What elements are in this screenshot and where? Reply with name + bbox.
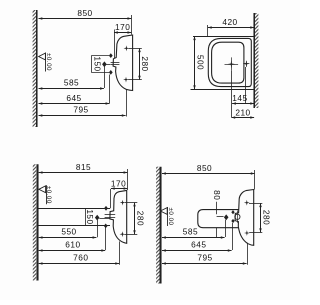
dimension 420: left extension line <box>207 25 209 36</box>
dimension 610: line <box>39 250 106 252</box>
wall hatching (top-right) <box>255 13 258 108</box>
dimension 280: bottom extension line (bottom-right) <box>249 232 262 234</box>
svg-text:145: 145 <box>232 93 247 103</box>
mounting hole upper (top-left) <box>124 45 130 51</box>
dimension 645: line <box>39 103 110 105</box>
floor level marker (top-left): triangle <box>39 53 46 60</box>
svg-text:815: 815 <box>76 162 91 172</box>
dimension 850 (bottom-right): line <box>162 173 255 175</box>
dimension 815: line <box>39 172 128 174</box>
svg-text:150: 150 <box>85 209 95 224</box>
dimension 280: top extension line <box>129 48 142 50</box>
dimension 150: top extension line <box>91 55 109 57</box>
dimension 150: bottom extension line <box>91 72 109 74</box>
shelf top line / dimension 150 upper extension <box>38 208 110 210</box>
dimension 80: leader line lower <box>216 228 218 238</box>
svg-text:80: 80 <box>212 190 222 200</box>
mounting hole upper (bottom-left) <box>120 200 126 206</box>
svg-text:500: 500 <box>195 55 205 70</box>
dimension 585: extension line <box>104 67 106 88</box>
svg-text:170: 170 <box>115 22 130 32</box>
svg-text:210: 210 <box>235 107 250 117</box>
svg-text:420: 420 <box>222 17 237 27</box>
svg-text:280: 280 <box>140 56 150 71</box>
dimension 170: left extension line (bottom-left) <box>110 189 112 208</box>
washbasin outer rim (plan) <box>208 38 251 86</box>
drain line / dimension 795 extension (bottom-right) <box>247 243 249 265</box>
wall line (bottom-left) <box>36 164 38 280</box>
svg-text:795: 795 <box>73 104 88 114</box>
dimension 585 (bottom-right): line <box>162 237 225 239</box>
dimension 280: top extension line (bottom-right) <box>249 203 262 205</box>
mounting hole lower (top-left) <box>123 77 129 83</box>
floor level marker (bottom-right): stem <box>167 207 169 226</box>
overflow tick upper (bottom-left) <box>105 214 116 216</box>
dimension 760: line <box>39 263 119 265</box>
dimension 795 (bottom-right): line <box>162 263 247 265</box>
svg-text:760: 760 <box>73 253 88 263</box>
overflow tick upper (top-left) <box>111 62 120 64</box>
leader diamond at overflow (550 reference) <box>95 215 100 221</box>
dimension 280 (bottom-left): line <box>134 203 136 235</box>
dimension 585: line <box>39 88 104 90</box>
dimension 280: top extension line (bottom-left) <box>125 202 138 204</box>
floor level marker (bottom-left): triangle <box>39 186 46 193</box>
svg-text:795: 795 <box>197 253 212 263</box>
svg-text:170: 170 <box>111 178 126 188</box>
dimension 850: line <box>39 18 132 20</box>
dimension 645: extension line <box>109 75 111 104</box>
floor level marker (top-left): stem <box>45 53 47 72</box>
dimension 150: upper arrow diamond (bottom-left) <box>104 206 108 211</box>
dimension 610: extension line <box>105 228 107 251</box>
svg-text:±0.00: ±0.00 <box>45 186 52 204</box>
svg-text:610: 610 <box>65 239 80 249</box>
dimension 80: upper arrow diamond <box>231 210 234 214</box>
drain line / dimension 760 extension <box>119 241 121 264</box>
leader pointer to overflow <box>106 64 110 66</box>
faucet hole symbol (plan) <box>243 63 249 65</box>
wall line (bottom-right) <box>159 167 161 284</box>
washbasin side profile (bottom-right view) <box>235 190 254 246</box>
svg-text:850: 850 <box>77 8 92 18</box>
dimension 280: bottom extension line <box>128 79 142 81</box>
dimension 585: extension line (bottom-right) <box>225 220 227 237</box>
overflow circle (bottom-right) <box>235 214 240 219</box>
wall hatching (bottom-right) <box>156 167 159 284</box>
drain line / dimension 795 extension <box>126 90 128 117</box>
dimension 280 (top-left): line <box>139 48 141 79</box>
dimension 795: line <box>39 115 126 117</box>
counter/extension line top (500 ref) <box>193 36 254 38</box>
dimension 150: joiner line (bottom-left) <box>85 208 87 226</box>
dimension 850: right extension line (bottom-right) <box>254 170 256 190</box>
mounting hole lower (bottom-right) <box>244 230 250 236</box>
dimension 170 (bottom-left): line <box>111 188 128 190</box>
wall hatching (top-left) <box>33 10 36 127</box>
faucet extension line down <box>245 67 247 103</box>
wall line (top-right) <box>253 13 255 108</box>
dimension 145: line <box>232 103 254 105</box>
siphon cover / half pedestal outline (bottom-right) <box>198 210 239 228</box>
dimension 80: lower arrow diamond <box>231 219 234 223</box>
dimension 645: extension line (bottom-right) <box>232 223 234 250</box>
dimension 645 (bottom-right): line <box>162 250 232 252</box>
overflow tick lower (top-left) <box>111 64 120 66</box>
mounting hole lower (bottom-left) <box>120 231 126 237</box>
svg-text:±0.00: ±0.00 <box>45 53 52 71</box>
svg-text:±0.00: ±0.00 <box>167 208 174 226</box>
svg-text:550: 550 <box>61 227 76 237</box>
dimension 150: lower arrow diamond (bottom-left) <box>104 224 108 229</box>
svg-text:280: 280 <box>135 211 145 226</box>
wall line (top-left) <box>35 10 37 127</box>
svg-text:645: 645 <box>191 239 206 249</box>
dimension 170: line <box>114 32 131 34</box>
svg-text:585: 585 <box>183 226 198 236</box>
dimension 170: left extension line <box>114 30 116 59</box>
leader diamond at siphon (585 reference) <box>224 214 229 220</box>
dimension 280: bottom extension line (bottom-left) <box>125 234 138 236</box>
dimension 210: line <box>231 117 254 119</box>
svg-text:150: 150 <box>93 56 103 71</box>
drain symbol crosshair (plan) <box>225 64 239 66</box>
svg-text:585: 585 <box>64 77 79 87</box>
svg-text:280: 280 <box>261 210 271 225</box>
overflow tick lower (bottom-left) <box>105 217 116 219</box>
overflow circle stem <box>237 211 239 223</box>
svg-text:850: 850 <box>197 163 212 173</box>
dimension 150: left joiner line <box>91 56 93 73</box>
washbasin side profile (top-left view) <box>113 35 133 91</box>
leader diamond at overflow (585 reference) <box>102 61 107 67</box>
dimension 500 (top-right): line <box>194 36 196 89</box>
floor level marker (bottom-right): triangle <box>160 208 167 215</box>
dimension 80: leader line upper <box>216 202 218 215</box>
wall hatching (bottom-left) <box>33 164 36 280</box>
washbasin side profile (bottom-left view) <box>110 190 127 243</box>
leader pointer to overflow (bottom-left) <box>99 218 109 220</box>
dimension 550: line <box>39 237 97 239</box>
shelf bottom line / dimension 150 lower extension <box>38 225 110 227</box>
washbasin inner bowl rim (plan) <box>212 42 244 83</box>
mounting hole upper (bottom-right) <box>244 200 250 206</box>
dimension 550: extension line <box>97 220 99 237</box>
leader pointer (bottom-right) <box>217 216 224 218</box>
dimension 150: upper arrow diamond <box>109 53 113 58</box>
floor level marker (bottom-left): stem <box>46 185 48 204</box>
dimension 420: line <box>208 27 254 29</box>
dimension 280 (bottom-right): line <box>260 203 262 232</box>
dimension 815: right extension line <box>127 169 129 190</box>
dimension 850: right extension line <box>131 15 133 35</box>
svg-text:645: 645 <box>66 93 81 103</box>
dimension 150: lower arrow diamond <box>109 70 113 75</box>
drain centre extension line down <box>231 71 233 118</box>
counter/extension line bottom (500 ref) <box>191 89 255 91</box>
